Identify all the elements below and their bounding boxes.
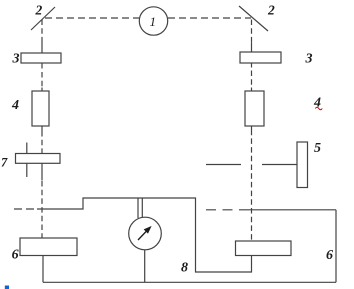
chopper 7 side rod lower bbox=[26, 163, 28, 177]
mirror M2 left bbox=[31, 7, 55, 30]
svg-text:8: 8 bbox=[181, 261, 188, 276]
svg-text:2: 2 bbox=[35, 3, 43, 18]
filter 3 right bbox=[240, 52, 281, 63]
compensator 5 right lead bbox=[262, 164, 297, 166]
detector 6 right bbox=[236, 241, 292, 256]
mirror M2 right bbox=[239, 6, 268, 31]
galvanometer needle bbox=[138, 227, 150, 240]
svg-text:5: 5 bbox=[314, 141, 321, 156]
svg-text:7: 7 bbox=[1, 156, 8, 170]
housing top right wall bbox=[240, 209, 336, 211]
wire left beam 4 to 7 bbox=[41, 126, 43, 131]
housing right wall bbox=[335, 210, 337, 282]
wire top dashed beam left segment bbox=[45, 17, 139, 19]
wire left beam below 7 bbox=[41, 163, 43, 180]
galvanometer lead double line bbox=[137, 198, 139, 218]
filter 3 left bbox=[21, 53, 61, 63]
svg-text:4: 4 bbox=[313, 96, 321, 111]
wire bottom bus bbox=[43, 281, 336, 283]
svg-text:4: 4 bbox=[11, 98, 19, 113]
compensator 5 left lead bbox=[206, 164, 241, 166]
galvanometer bottom lead bbox=[144, 250, 146, 282]
cell 4 left bbox=[32, 91, 49, 126]
wire right beam below 4 bbox=[251, 126, 253, 134]
source circle 1 bbox=[139, 7, 167, 35]
chopper 7 side rod upper bbox=[26, 143, 28, 154]
svg-text:6: 6 bbox=[12, 248, 19, 263]
wire left beam 3 to 4 bbox=[41, 63, 43, 69]
housing dashed entry right bbox=[206, 209, 240, 211]
svg-text:3: 3 bbox=[305, 52, 313, 67]
svg-text:2: 2 bbox=[267, 3, 275, 18]
housing dashed entry left bbox=[14, 208, 37, 210]
wire right beam mirror to filter 3 bbox=[251, 20, 253, 43]
wire top dashed beam right segment bbox=[168, 17, 251, 19]
svg-text:6: 6 bbox=[326, 248, 333, 263]
spellcheck squiggle under right 4 bbox=[315, 107, 322, 110]
wire from 6 left down bbox=[42, 256, 44, 283]
wire left beam mirror to filter 3 bbox=[41, 20, 43, 42]
galvanometer 8 meter body bbox=[129, 217, 162, 250]
compensator 5 plate bbox=[297, 142, 308, 188]
svg-text:3: 3 bbox=[12, 52, 20, 67]
cell 4 right bbox=[245, 91, 264, 126]
svg-text:1: 1 bbox=[150, 14, 157, 29]
housing top left wall bbox=[37, 198, 252, 272]
wire right beam 3 to 4 bbox=[251, 63, 253, 68]
chopper 7 bbox=[16, 154, 61, 164]
blue cursor artifact bbox=[5, 286, 9, 289]
detector 6 left bbox=[20, 238, 77, 256]
